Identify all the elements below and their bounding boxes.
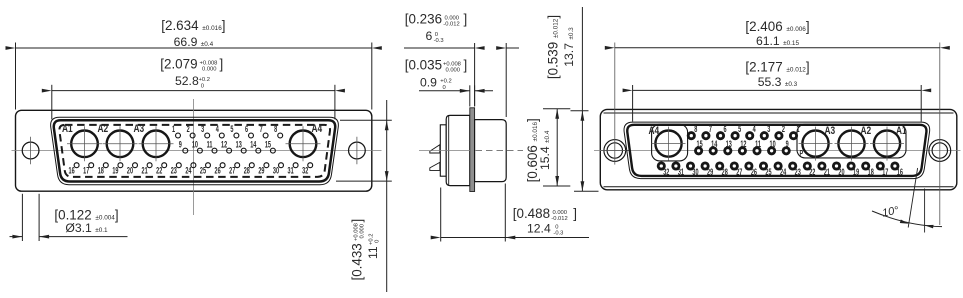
svg-text:-0.3: -0.3 (434, 38, 444, 44)
svg-text:22: 22 (156, 165, 162, 176)
svg-text:P: P (800, 149, 804, 158)
svg-text:32: 32 (302, 165, 308, 176)
svg-text:9: 9 (786, 139, 789, 150)
svg-text:32: 32 (663, 166, 669, 177)
svg-text:14: 14 (250, 139, 257, 150)
svg-text:0.000: 0.000 (202, 67, 217, 73)
svg-text:[0.488: [0.488 (513, 206, 550, 221)
svg-text:1: 1 (796, 124, 799, 135)
svg-text:16: 16 (69, 165, 75, 176)
svg-text:17: 17 (882, 166, 888, 177)
svg-text:A3: A3 (825, 125, 836, 137)
svg-text:]: ] (220, 57, 224, 72)
svg-text:25: 25 (765, 166, 771, 177)
svg-text:[0.433: [0.433 (350, 243, 365, 280)
svg-text:13: 13 (726, 139, 732, 150)
svg-text:]: ] (573, 206, 577, 221)
svg-text:8: 8 (694, 124, 697, 135)
svg-text:10: 10 (770, 139, 776, 150)
svg-text:6: 6 (426, 29, 433, 43)
svg-text:30: 30 (692, 166, 698, 177)
svg-text:5: 5 (230, 124, 233, 135)
svg-text:+0.2: +0.2 (440, 79, 451, 85)
svg-text:21: 21 (142, 165, 148, 176)
svg-text:29: 29 (258, 165, 264, 176)
svg-text:26: 26 (215, 165, 221, 176)
svg-text:13: 13 (236, 139, 242, 150)
svg-text:11: 11 (207, 139, 213, 150)
svg-text:11: 11 (755, 139, 761, 150)
svg-text:6: 6 (723, 124, 726, 135)
svg-text:24: 24 (185, 165, 192, 176)
svg-text:9: 9 (179, 139, 182, 150)
svg-text:24: 24 (780, 166, 787, 177)
svg-text:17: 17 (83, 165, 89, 176)
svg-text:0.9: 0.9 (420, 76, 437, 90)
svg-text:A4: A4 (312, 123, 323, 135)
svg-text:22: 22 (809, 166, 815, 177)
svg-text:0: 0 (555, 224, 558, 230)
svg-text:0: 0 (443, 85, 446, 91)
svg-text:14: 14 (711, 139, 718, 150)
svg-text:-0.012: -0.012 (551, 216, 567, 222)
svg-text:[0.236: [0.236 (405, 12, 442, 27)
svg-text:0.000: 0.000 (446, 68, 461, 74)
svg-text:1: 1 (172, 124, 175, 135)
svg-text:18: 18 (98, 165, 104, 176)
svg-text:]: ] (464, 58, 468, 73)
svg-text:0: 0 (375, 240, 381, 243)
svg-text:23: 23 (171, 165, 177, 176)
svg-text:16: 16 (897, 166, 903, 177)
svg-text:28: 28 (244, 165, 250, 176)
svg-text:3: 3 (767, 124, 770, 135)
svg-text:2: 2 (782, 124, 785, 135)
svg-text:5: 5 (738, 124, 741, 135)
svg-text:21: 21 (824, 166, 830, 177)
svg-text:18: 18 (868, 166, 874, 177)
svg-text:25: 25 (200, 165, 206, 176)
svg-text:15: 15 (265, 139, 271, 150)
svg-text:12: 12 (221, 139, 227, 150)
svg-text:11: 11 (366, 246, 380, 259)
svg-text:23: 23 (795, 166, 801, 177)
svg-text:[0.035: [0.035 (405, 58, 442, 73)
svg-text:15: 15 (697, 139, 703, 150)
svg-text:19: 19 (112, 165, 118, 176)
svg-text:]: ] (350, 219, 365, 223)
svg-text:27: 27 (229, 165, 235, 176)
svg-text:12: 12 (740, 139, 746, 150)
svg-text:7: 7 (260, 124, 263, 135)
svg-text:6: 6 (245, 124, 248, 135)
svg-text:0: 0 (435, 32, 438, 38)
svg-text:28: 28 (722, 166, 728, 177)
svg-text:[2.079: [2.079 (160, 57, 197, 72)
svg-text:31: 31 (288, 165, 294, 176)
svg-text:A2: A2 (98, 123, 109, 135)
svg-text:30: 30 (273, 165, 279, 176)
svg-text:A2: A2 (861, 125, 872, 137)
svg-text:26: 26 (751, 166, 757, 177)
svg-text:+0.2: +0.2 (199, 77, 210, 83)
svg-text:10: 10 (192, 139, 198, 150)
svg-text:]: ] (464, 12, 468, 27)
svg-text:27: 27 (736, 166, 742, 177)
svg-text:A1: A1 (62, 123, 73, 135)
svg-text:-0.3: -0.3 (553, 231, 563, 237)
svg-text:3: 3 (201, 124, 204, 135)
svg-text:0: 0 (201, 83, 204, 89)
svg-text:7: 7 (709, 124, 712, 135)
svg-text:2: 2 (187, 124, 190, 135)
svg-text:31: 31 (678, 166, 684, 177)
svg-text:A1: A1 (896, 125, 907, 137)
svg-text:8: 8 (274, 124, 277, 135)
svg-text:20: 20 (838, 166, 844, 177)
svg-text:12.4: 12.4 (527, 222, 551, 236)
svg-text:29: 29 (707, 166, 713, 177)
svg-text:0.000: 0.000 (359, 224, 365, 239)
svg-text:-0.012: -0.012 (443, 22, 459, 28)
svg-text:52.8: 52.8 (175, 74, 199, 88)
svg-text:A3: A3 (134, 123, 145, 135)
svg-text:A4: A4 (649, 125, 660, 137)
svg-text:19: 19 (853, 166, 859, 177)
svg-text:20: 20 (127, 165, 133, 176)
